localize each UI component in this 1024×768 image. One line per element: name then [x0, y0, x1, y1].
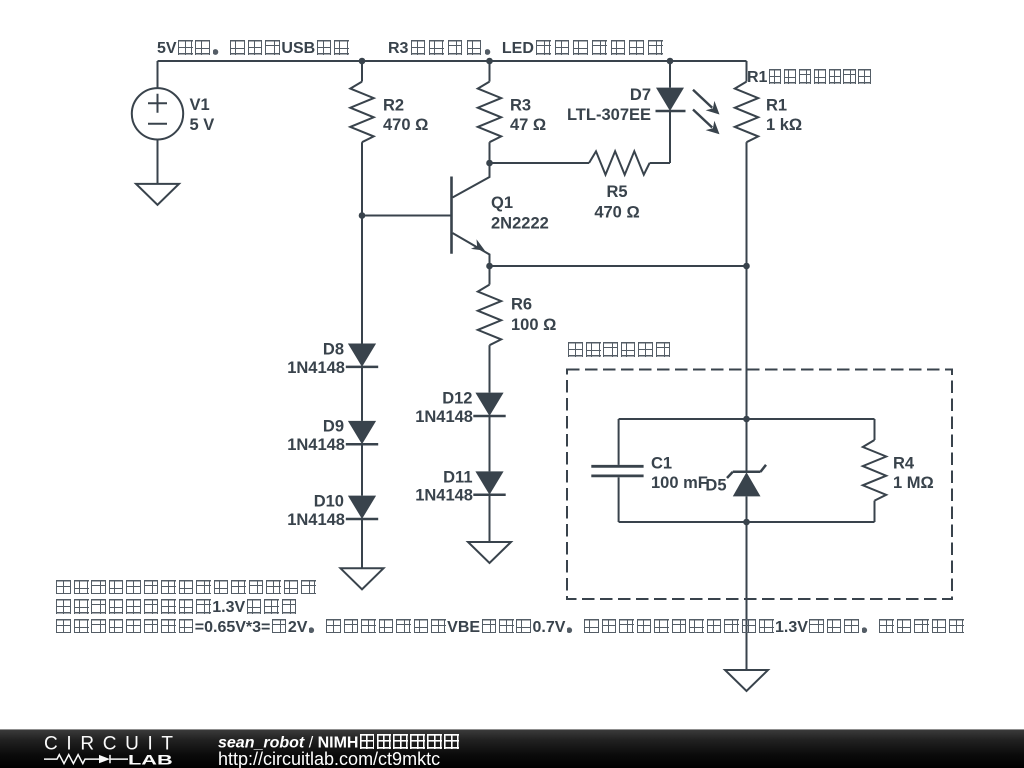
ground (battery)	[725, 670, 768, 691]
node junction top of D7	[667, 58, 674, 65]
svg-text:1N4148: 1N4148	[287, 359, 345, 377]
svg-text:R2: R2	[383, 97, 404, 115]
label R3 value	[510, 97, 546, 135]
node junction top of R3	[486, 58, 493, 65]
wire base node down to D8	[361, 216, 363, 344]
svg-text:1N4148: 1N4148	[287, 511, 345, 529]
diode D8	[346, 344, 378, 367]
svg-text:100 mF: 100 mF	[651, 474, 708, 492]
svg-text:D12: D12	[442, 390, 472, 408]
node junction collector	[486, 160, 493, 167]
annotation: bottom note line 1	[55, 580, 317, 597]
svg-text:D8: D8	[323, 341, 344, 359]
footer url text	[218, 750, 440, 768]
label D12 value	[415, 390, 473, 427]
CircuitLab logo	[0, 729, 200, 768]
resistor R1	[735, 61, 758, 266]
battery box dashed	[567, 370, 952, 600]
LED arrow 2	[693, 110, 720, 135]
svg-text:1N4148: 1N4148	[415, 487, 473, 505]
svg-text:470 Ω: 470 Ω	[594, 204, 639, 222]
label V1 value	[190, 96, 215, 134]
svg-text:C1: C1	[651, 455, 672, 473]
svg-text:D9: D9	[323, 418, 344, 436]
svg-text:470 Ω: 470 Ω	[383, 116, 428, 134]
wire right rail into battery box	[746, 266, 748, 419]
annotation: NiMH battery label	[567, 342, 672, 359]
annotation: bottom note line 3	[55, 619, 965, 636]
label R4 value	[893, 455, 934, 493]
LED arrow 1	[693, 90, 720, 115]
ground (V1)	[136, 184, 179, 205]
svg-text:R3: R3	[510, 97, 531, 115]
node junction battery top	[743, 416, 750, 423]
label R6 value	[511, 296, 556, 335]
wire D8 to D9	[361, 367, 363, 421]
diode D10	[346, 496, 378, 519]
svg-text:D5: D5	[705, 477, 726, 495]
capacitor C1	[591, 419, 643, 522]
svg-text:D10: D10	[314, 493, 344, 511]
wire D10 to ground	[361, 519, 363, 568]
wire collector node to R5	[490, 162, 590, 164]
resistor R4	[863, 419, 886, 522]
diode D12	[473, 393, 505, 416]
wire battery top rail	[619, 418, 875, 420]
svg-text:Q1: Q1	[491, 194, 513, 212]
label R5 value	[594, 183, 639, 222]
annotation: 5V power note	[157, 40, 350, 57]
annotation: bottom note line 2	[55, 599, 298, 616]
annotation: R1 trickle note	[747, 69, 872, 86]
label D8 value	[287, 341, 345, 378]
wire D11 to ground	[489, 495, 491, 542]
svg-text:R5: R5	[606, 183, 627, 201]
svg-text:1 kΩ: 1 kΩ	[766, 116, 802, 134]
wire battery bottom rail	[619, 521, 875, 523]
svg-text:LTL-307EE: LTL-307EE	[567, 106, 651, 124]
node junction battery bottom	[743, 519, 750, 526]
resistor R2	[350, 61, 373, 216]
resistor R6	[478, 266, 501, 393]
svg-text:D7: D7	[630, 86, 651, 104]
ground (D11 chain)	[468, 542, 511, 563]
wire emitter rail	[490, 265, 747, 267]
label D11 value	[415, 469, 473, 505]
label D7 value	[567, 86, 651, 124]
diode D9	[346, 421, 378, 444]
svg-text:47 Ω: 47 Ω	[510, 116, 546, 134]
label Q1 value	[491, 194, 549, 233]
resistor R5	[589, 151, 670, 174]
wire top rail	[158, 60, 747, 62]
label D5 value	[705, 477, 726, 495]
footer bar	[0, 729, 1024, 768]
LED D7	[656, 61, 686, 163]
svg-text:R4: R4	[893, 455, 915, 473]
svg-text:2N2222: 2N2222	[491, 215, 549, 233]
svg-text:1N4148: 1N4148	[287, 436, 345, 454]
svg-text:R1: R1	[766, 97, 787, 115]
wire base node to Q1	[362, 215, 451, 217]
node junction emitter	[486, 263, 493, 270]
label R1 value	[766, 97, 802, 135]
wire D9 to D10	[361, 444, 363, 495]
transistor Q1	[452, 163, 490, 266]
svg-text:D11: D11	[443, 469, 472, 487]
node junction base of Q1	[359, 212, 366, 219]
svg-text:1N4148: 1N4148	[415, 408, 473, 426]
svg-text:R6: R6	[511, 296, 532, 314]
svg-text:1 MΩ: 1 MΩ	[893, 474, 934, 492]
svg-text:V1: V1	[190, 96, 210, 114]
ground (D10 chain)	[341, 568, 384, 589]
svg-text:5 V: 5 V	[190, 116, 215, 134]
node junction emitter rail right	[743, 263, 750, 270]
label C1 value	[651, 455, 708, 493]
svg-text:100 Ω: 100 Ω	[511, 316, 556, 334]
svg-text:LAB: LAB	[128, 751, 173, 767]
node junction top of R2	[359, 58, 366, 65]
diode D11	[473, 471, 505, 494]
label R2 value	[383, 97, 428, 135]
resistor R3	[478, 61, 501, 163]
zener diode D5	[727, 419, 766, 522]
label D9 value	[287, 418, 345, 455]
voltage source V1	[132, 61, 183, 184]
wire D12 to D11	[489, 416, 491, 471]
footer title text	[218, 734, 460, 752]
label D10 value	[287, 493, 345, 530]
wire battery bottom to ground	[746, 522, 748, 670]
annotation: R3 fast charge note	[388, 40, 665, 57]
